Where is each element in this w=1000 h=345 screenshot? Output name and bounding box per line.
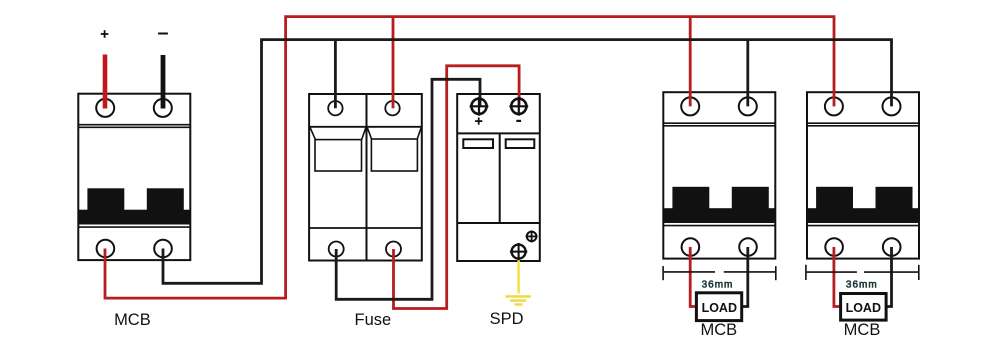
SPD screw terminal - (right) [509,97,528,116]
wire: red fuse output to SPD - terminal [394,66,520,309]
breaker MCB3 (load breaker 2) [807,92,919,258]
svg-text:36mm: 36mm [702,280,734,291]
LOAD box 2 [841,294,887,321]
fuse F1 terminals [328,101,401,257]
svg-text:LOAD: LOAD [846,301,881,315]
SPD earth screw (large) [510,243,527,260]
fuse F1 carrier right [367,127,421,171]
SPD small screw [526,230,538,242]
surge protector SPD body [457,94,540,261]
dimension 36mm for MCB3 [806,265,919,280]
wire: red bus from MCB1 + output to fuse, MCB2, MCB3 [105,17,834,299]
wire: black fuse output to SPD + terminal [336,79,480,299]
svg-text:36mm: 36mm [846,280,878,291]
svg-text:SPD: SPD [490,310,524,328]
wire: red MCB2 to LOAD1 [690,247,697,307]
wire: red MCB3 to LOAD2 [834,247,842,307]
SPD minus label [516,120,521,122]
label + input [101,30,109,38]
svg-text:MCB: MCB [114,311,151,329]
wire: black MCB2 to LOAD1 [741,247,748,307]
SPD screw terminal + (left) [470,97,489,116]
dimension 36mm for MCB2 [663,266,776,280]
LOAD box 1 [696,293,741,321]
svg-text:Fuse: Fuse [355,311,392,329]
wire: thick red + input [103,55,108,109]
wire: black bus from MCB1 - output to fuse, MCB2, MCB3 [163,40,892,284]
ground symbol (earth bars) [505,296,531,304]
svg-text:MCB: MCB [700,321,737,339]
wire: black MCB3 to LOAD2 [884,247,892,307]
wire: yellow earth wire [517,252,520,294]
SPD plus label [475,118,482,125]
breaker MCB1 (DC input breaker) [78,94,190,260]
svg-text:LOAD: LOAD [702,301,737,315]
label - input [158,33,168,35]
fuse F1 body [309,94,422,261]
svg-text:MCB: MCB [844,321,881,339]
wire: thick black - input [161,55,166,109]
fuse F1 carrier left [310,127,366,171]
breaker MCB2 (load breaker 1) [663,92,775,258]
